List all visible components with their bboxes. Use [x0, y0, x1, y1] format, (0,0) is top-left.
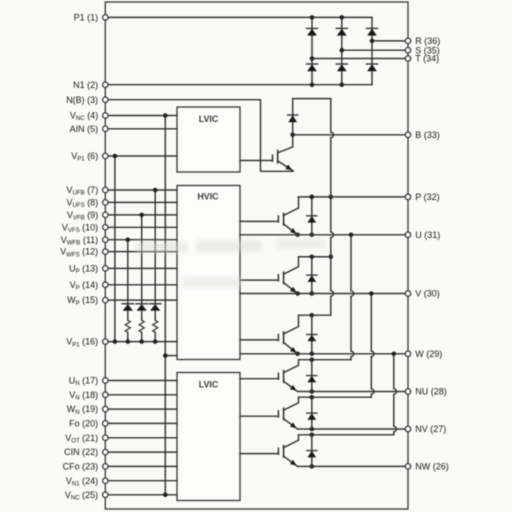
svg-text:T (34): T (34): [415, 54, 439, 64]
svg-text:U (31): U (31): [415, 230, 440, 240]
svg-text:UP (13): UP (13): [69, 264, 98, 276]
svg-text:W (29): W (29): [415, 349, 442, 359]
svg-text:P (32): P (32): [415, 192, 439, 202]
svg-text:VNC (25): VNC (25): [65, 490, 98, 502]
svg-text:NV (27): NV (27): [415, 424, 446, 434]
svg-text:VP1 (16): VP1 (16): [66, 337, 98, 349]
svg-text:VWFS (12): VWFS (12): [60, 247, 98, 259]
svg-text:N1 (2): N1 (2): [73, 80, 98, 90]
svg-text:VNC (4): VNC (4): [70, 111, 98, 123]
svg-text:UN (17): UN (17): [69, 376, 98, 388]
svg-text:VWFB (11): VWFB (11): [61, 235, 98, 247]
svg-text:AIN (5): AIN (5): [70, 124, 99, 134]
svg-text:VOT (21): VOT (21): [65, 433, 98, 445]
svg-text:WP (15): WP (15): [67, 295, 98, 307]
svg-text:NW (26): NW (26): [415, 462, 449, 472]
svg-text:HVIC: HVIC: [197, 191, 219, 201]
svg-text:VVFS (10): VVFS (10): [62, 222, 98, 234]
svg-text:B (33): B (33): [415, 130, 440, 140]
svg-text:VN (18): VN (18): [69, 390, 98, 402]
svg-text:VN1 (24): VN1 (24): [66, 476, 98, 488]
svg-text:LVIC: LVIC: [199, 380, 219, 390]
svg-text:N(B) (3): N(B) (3): [66, 95, 98, 105]
svg-text:V (30): V (30): [415, 289, 440, 299]
svg-text:CIN (22): CIN (22): [64, 447, 98, 457]
svg-text:WN (19): WN (19): [67, 404, 98, 416]
svg-text:LVIC: LVIC: [199, 114, 219, 124]
svg-text:VP1 (6): VP1 (6): [71, 151, 98, 163]
svg-text:CFo (23): CFo (23): [63, 462, 99, 472]
svg-text:VP (14): VP (14): [70, 280, 99, 292]
svg-text:P1 (1): P1 (1): [74, 13, 99, 23]
svg-text:NU (28): NU (28): [415, 387, 447, 397]
svg-text:Fo (20): Fo (20): [69, 419, 98, 429]
